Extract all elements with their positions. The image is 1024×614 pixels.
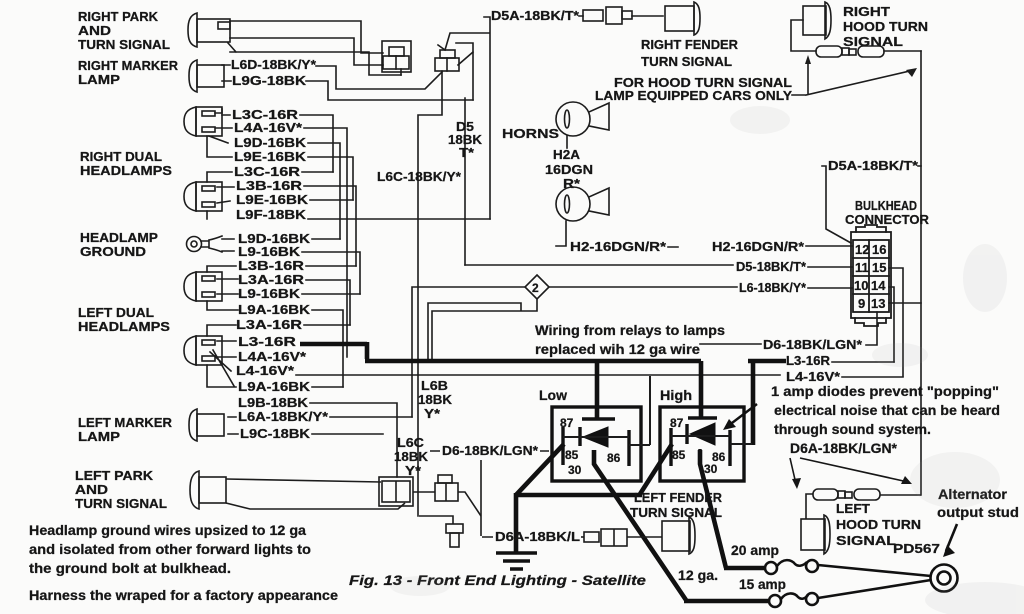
svg-text:Y*: Y*: [424, 407, 440, 421]
wire bracket above wiring note: [428, 299, 537, 360]
svg-text:RIGHT PARK: RIGHT PARK: [78, 10, 158, 24]
wire L9D2 right: [312, 238, 340, 240]
relay Low pin labels: [560, 416, 621, 477]
label RIGHT DUAL HEADLAMPS: [80, 150, 172, 178]
svg-text:SIGNAL: SIGNAL: [836, 534, 896, 548]
svg-text:LEFT PARK: LEFT PARK: [75, 469, 153, 483]
svg-text:11: 11: [855, 260, 869, 275]
wire high diode line: [671, 435, 730, 437]
wire L9B right: [310, 403, 397, 477]
label L4-16V* right: [786, 370, 840, 384]
svg-text:TURN SIGNAL: TURN SIGNAL: [641, 55, 732, 69]
svg-text:Harness the wraped for a facto: Harness the wraped for a factory appeara…: [29, 588, 339, 603]
wire D6 label dashes: [700, 343, 761, 345]
label amps: [678, 543, 786, 592]
svg-text:10: 10: [854, 278, 868, 293]
wire H2 to pin12: [668, 246, 852, 247]
ground symbol: [496, 553, 537, 569]
svg-text:H2-16DGN/R*: H2-16DGN/R*: [712, 240, 804, 254]
wire horn link: [566, 136, 568, 148]
annotation diode note: [771, 384, 1000, 437]
connector D5 twin: [435, 50, 459, 71]
svg-text:LAMP: LAMP: [78, 430, 120, 444]
svg-text:16DGN: 16DGN: [545, 163, 593, 177]
svg-text:L9E-16BK: L9E-16BK: [234, 150, 306, 164]
svg-text:TURN SIGNAL: TURN SIGNAL: [75, 497, 167, 511]
svg-text:TURN SIGNAL: TURN SIGNAL: [78, 38, 170, 52]
svg-text:replaced wih 12 ga wire: replaced wih 12 ga wire: [535, 342, 701, 357]
svg-text:L9A-16BK: L9A-16BK: [238, 303, 310, 317]
svg-text:D5-18BK/T*: D5-18BK/T*: [736, 260, 806, 274]
wire L4 long thin: [296, 374, 780, 376]
lamp: left marker: [189, 409, 224, 441]
wire L9-2 right: [302, 293, 360, 295]
svg-text:2: 2: [532, 281, 539, 295]
label LEFT DUAL HEADLAMPS: [78, 306, 170, 334]
relay Low diode: [583, 427, 608, 447]
lamp: right hood turn signal: [791, 2, 831, 51]
annotation headlamp ground note: [29, 523, 339, 603]
svg-text:30: 30: [704, 462, 718, 476]
wire L9E right: [308, 157, 353, 200]
svg-text:L9-16BK: L9-16BK: [238, 287, 300, 301]
svg-text:L6B: L6B: [421, 379, 448, 393]
bulkhead pin numbers: [854, 242, 886, 311]
svg-text:D6-18BK/LGN*: D6-18BK/LGN*: [763, 338, 862, 352]
svg-text:AND: AND: [78, 24, 111, 38]
label D5A-18BK/T* right: [828, 159, 918, 173]
svg-text:LEFT FENDER: LEFT FENDER: [634, 491, 722, 505]
label LEFT FENDER TURN SIGNAL: [630, 491, 722, 520]
svg-text:L4A-16V*: L4A-16V*: [234, 121, 302, 135]
svg-text:L6A-18BK/Y*: L6A-18BK/Y*: [238, 410, 328, 424]
svg-text:L3A-16R: L3A-16R: [236, 318, 302, 332]
label Low High: [539, 388, 692, 403]
svg-text:PD567: PD567: [893, 542, 940, 556]
svg-text:18BK: 18BK: [448, 133, 482, 147]
label L6C stack: [394, 436, 428, 478]
svg-text:L3B-16R: L3B-16R: [238, 259, 304, 273]
wire connector A bottom stub: [400, 69, 402, 75]
ground ring terminal: [187, 236, 223, 252]
label D6A-18BK/L: [495, 530, 580, 544]
svg-text:85: 85: [672, 448, 686, 462]
svg-text:L9C-18BK: L9C-18BK: [240, 427, 310, 441]
wire L3A right: [306, 280, 350, 325]
label D6A-18BK/LGN*: [790, 441, 898, 456]
label D6-18BK/LGN* right: [763, 338, 862, 352]
svg-text:1 amp diodes prevent "popping": 1 amp diodes prevent "popping": [771, 384, 999, 399]
wire pin15 right: [889, 268, 903, 376]
wire pin13 right: [889, 302, 921, 304]
lamp: right fender turn signal: [665, 2, 700, 35]
wire high86 up: [730, 443, 752, 445]
arrow diode note: [728, 404, 757, 426]
svg-text:HOOD TURN: HOOD TURN: [843, 20, 928, 34]
wire D5A hood vertical: [920, 51, 922, 495]
svg-text:13: 13: [871, 296, 885, 311]
svg-text:D5: D5: [456, 120, 474, 134]
svg-text:RIGHT MARKER: RIGHT MARKER: [78, 59, 178, 73]
wire L3A2 right: [304, 324, 350, 326]
scan noise: [390, 106, 1024, 614]
wire low30 to 15amp heavy: [594, 450, 768, 601]
horn 2: [556, 187, 609, 221]
wire low diode line: [563, 436, 629, 438]
wire high85 heavy long: [516, 444, 672, 495]
wire D5 connector to label bus: [418, 71, 442, 516]
svg-text:Wiring from relays to lamps: Wiring from relays to lamps: [535, 323, 725, 338]
lamp: right marker: [189, 60, 224, 92]
wire L4 right thin: [842, 376, 903, 378]
wire pin13 down to D6 label: [866, 312, 877, 345]
wire low86 up: [629, 376, 650, 445]
headlamp 3: [184, 272, 222, 301]
svg-text:D5A-18BK/T*: D5A-18BK/T*: [828, 159, 918, 173]
horn 1: [556, 102, 609, 136]
wire D5A top elbow: [445, 17, 490, 219]
wire L9F long: [308, 218, 490, 220]
svg-text:85: 85: [565, 448, 579, 462]
svg-text:L4-16V*: L4-16V*: [786, 370, 840, 384]
breaker 20 amp: [765, 560, 931, 576]
wire L3C2 right: [302, 171, 333, 173]
label D5-18BK/T*: [736, 260, 806, 274]
connector A (inline pair near D5): [382, 41, 411, 72]
svg-text:LAMP: LAMP: [78, 73, 120, 87]
svg-text:H2A: H2A: [553, 148, 580, 162]
svg-text:L3B-16R: L3B-16R: [236, 179, 302, 193]
svg-text:86: 86: [607, 451, 621, 465]
svg-text:Low: Low: [539, 388, 568, 403]
wire park/turn lower: [438, 43, 473, 100]
wire horn2 down: [556, 221, 566, 246]
node D5 wire down: [464, 98, 466, 265]
svg-text:D6A-18BK/LGN*: D6A-18BK/LGN*: [790, 441, 898, 456]
alternator stud: [931, 565, 958, 592]
svg-text:D6A-18BK/L: D6A-18BK/L: [495, 530, 580, 544]
svg-text:FOR HOOD TURN SIGNAL: FOR HOOD TURN SIGNAL: [614, 76, 792, 90]
label RIGHT MARKER LAMP: [78, 59, 178, 87]
svg-text:GROUND: GROUND: [80, 245, 146, 259]
annotation wiring note: [535, 323, 725, 357]
wire stubs headlamp4: [207, 325, 236, 387]
svg-text:L9A-16BK: L9A-16BK: [238, 380, 310, 394]
wire to D5 connector bottom: [228, 43, 401, 75]
wire D5 to pin11: [465, 265, 852, 267]
svg-text:18BK: 18BK: [394, 450, 428, 464]
svg-text:L6C: L6C: [397, 436, 424, 450]
bullet connectors right hood: [816, 46, 921, 57]
svg-text:12 ga.: 12 ga.: [678, 568, 718, 583]
svg-text:14: 14: [871, 278, 886, 293]
svg-text:L3C-16R: L3C-16R: [232, 108, 298, 122]
svg-text:High: High: [660, 388, 692, 403]
wire L9A right: [312, 310, 343, 387]
wire ladder labels group1: [232, 108, 328, 441]
headlamp 1: [184, 107, 222, 136]
svg-text:L9B-18BK: L9B-18BK: [238, 396, 308, 410]
svg-text:HEADLAMPS: HEADLAMPS: [78, 320, 170, 334]
wire L6A right: [228, 416, 412, 418]
svg-text:RIGHT FENDER: RIGHT FENDER: [641, 38, 738, 52]
svg-text:18BK: 18BK: [418, 393, 452, 407]
svg-text:L6C-18BK/Y*: L6C-18BK/Y*: [377, 170, 461, 184]
connector chain left fender: [581, 517, 695, 554]
wire L6 diamond left: [412, 287, 525, 417]
label HORNS: [502, 127, 559, 141]
wire low85 to ground heavy: [516, 444, 564, 553]
svg-text:12: 12: [855, 242, 869, 257]
label Alternator output stud: [937, 487, 1019, 520]
svg-text:LEFT MARKER: LEFT MARKER: [78, 416, 172, 430]
svg-text:RIGHT DUAL: RIGHT DUAL: [80, 150, 162, 164]
relay Low box: [552, 407, 641, 481]
svg-text:the ground bolt at bulkhead.: the ground bolt at bulkhead.: [29, 561, 231, 576]
label BULKHEAD CONNECTOR: [845, 199, 929, 227]
svg-text:L3-16R: L3-16R: [238, 335, 296, 349]
svg-text:AND: AND: [75, 483, 108, 497]
svg-text:T*: T*: [459, 146, 474, 160]
label RIGHT PARK AND TURN SIGNAL: [78, 10, 170, 52]
svg-text:LEFT DUAL: LEFT DUAL: [78, 306, 154, 320]
relay High box: [660, 407, 744, 481]
lamp: left park and turn signal: [190, 471, 481, 516]
bulkhead connector body: [851, 225, 891, 326]
wire relay87 feeds heavy: [597, 361, 701, 418]
svg-text:L9F-18BK: L9F-18BK: [236, 208, 306, 222]
wire L3 right thin: [832, 361, 894, 363]
svg-text:L3C-16R: L3C-16R: [234, 165, 300, 179]
wire L9G-18BK: [222, 81, 473, 100]
wire into connector A: [230, 38, 383, 65]
wire cluster diagonal: [458, 52, 473, 65]
arrow annotation hood feed: [792, 60, 914, 95]
svg-text:87: 87: [560, 416, 574, 430]
lamp: left hood turn signal: [801, 489, 921, 554]
connector chain right fender: [579, 7, 663, 24]
wire L9C right: [228, 433, 383, 435]
svg-text:HEADLAMPS: HEADLAMPS: [80, 164, 172, 178]
svg-text:RIGHT: RIGHT: [843, 5, 890, 19]
svg-text:H2-16DGN/R*: H2-16DGN/R*: [570, 240, 666, 254]
svg-text:15: 15: [872, 260, 886, 275]
svg-text:L9-16BK: L9-16BK: [238, 245, 300, 259]
headlamp 4: [184, 336, 234, 386]
diamond splice 2: [525, 275, 549, 299]
lamp: right park and turn signal: [188, 13, 230, 47]
svg-text:TURN SIGNAL: TURN SIGNAL: [630, 506, 722, 520]
arrow alternator: [946, 524, 957, 551]
wire stubs headlamp2: [207, 172, 234, 219]
svg-text:HORNS: HORNS: [502, 127, 559, 141]
wire D5A label to connector: [822, 166, 921, 243]
wire L9E2 right: [310, 199, 353, 201]
wire D6 mid dashes: [430, 450, 549, 452]
svg-text:D6-18BK/LGN*: D6-18BK/LGN*: [442, 444, 538, 458]
svg-text:and isolated from other forwar: and isolated from other forward lights t…: [29, 542, 311, 557]
label D6-18BK/LGN mid: [442, 444, 538, 458]
svg-text:9: 9: [858, 296, 865, 311]
relay High pin labels: [670, 416, 726, 476]
wire high30 to 20amp heavy: [700, 450, 764, 568]
svg-text:CONNECTOR: CONNECTOR: [845, 213, 929, 227]
svg-text:30: 30: [568, 463, 582, 477]
wire stubs headlamp3: [207, 266, 238, 310]
svg-text:L9E-16BK: L9E-16BK: [236, 193, 308, 207]
svg-text:L9D-16BK: L9D-16BK: [234, 136, 306, 150]
svg-text:L9G-18BK: L9G-18BK: [232, 74, 306, 88]
label L3-16R right: [786, 354, 830, 368]
label D5 18BK T* stack: [448, 120, 482, 160]
wire L9A2 right: [312, 386, 343, 388]
svg-text:electrical noise that can be h: electrical noise that can be heard: [774, 403, 1000, 418]
svg-text:HEADLAMP: HEADLAMP: [80, 231, 158, 245]
wire L3B right: [304, 186, 356, 266]
label L6B stack: [418, 379, 452, 421]
wire L4A right: [304, 128, 347, 357]
svg-text:SIGNAL: SIGNAL: [843, 35, 903, 49]
label D5A-18BK/T* top: [491, 9, 579, 23]
label H2-16DGN/R* pair: [570, 240, 804, 254]
svg-text:Headlamp ground wires upsized: Headlamp ground wires upsized to 12 ga: [29, 523, 307, 538]
svg-text:87: 87: [670, 416, 684, 430]
wire D6A vertical: [481, 460, 493, 537]
svg-text:15 amp: 15 amp: [739, 577, 786, 592]
wire L6D-18BK/Y*: [222, 65, 442, 89]
wire stubs headlamp1: [207, 109, 232, 157]
relay High diode: [690, 423, 715, 445]
svg-text:L9D-16BK: L9D-16BK: [238, 232, 310, 246]
svg-text:16: 16: [872, 242, 886, 257]
bolt terminal: [419, 516, 463, 547]
wire L3C right: [300, 115, 333, 172]
svg-text:L3A-16R: L3A-16R: [238, 273, 304, 287]
wire L9 right: [302, 252, 360, 294]
wire L9D right: [308, 143, 340, 239]
svg-text:through sound system.: through sound system.: [774, 422, 931, 437]
wire stubs ground terminal: [222, 239, 234, 251]
svg-text:BULKHEAD: BULKHEAD: [855, 199, 917, 213]
wire L6 diamond right to pin10: [549, 287, 852, 288]
svg-text:20 amp: 20 amp: [731, 543, 779, 558]
svg-text:LAMP EQUIPPED CARS ONLY: LAMP EQUIPPED CARS ONLY: [595, 89, 793, 103]
wire L3 heavy 12ga bus: [300, 342, 786, 601]
svg-text:LEFT: LEFT: [836, 502, 870, 516]
svg-text:L4-16V*: L4-16V*: [236, 364, 294, 378]
svg-text:Y*: Y*: [405, 464, 421, 478]
wire park/turn upper: [230, 21, 383, 53]
wire pin14 right: [889, 287, 894, 362]
headlamp 2: [184, 182, 222, 211]
svg-text:L6-18BK/Y*: L6-18BK/Y*: [739, 281, 806, 295]
breaker 15 amp: [769, 580, 931, 607]
svg-text:D5A-18BK/T*: D5A-18BK/T*: [491, 9, 579, 23]
arrows D6A note: [790, 458, 908, 484]
svg-text:L6D-18BK/Y*: L6D-18BK/Y*: [231, 58, 316, 72]
caption Fig 13: [349, 572, 646, 588]
wire L3B2 right: [306, 265, 356, 267]
svg-text:L4A-16V*: L4A-16V*: [238, 350, 306, 364]
svg-text:L3-16R: L3-16R: [786, 354, 830, 368]
label L6C-18BK/Y* mid: [377, 170, 461, 184]
svg-text:HOOD TURN: HOOD TURN: [836, 518, 921, 532]
